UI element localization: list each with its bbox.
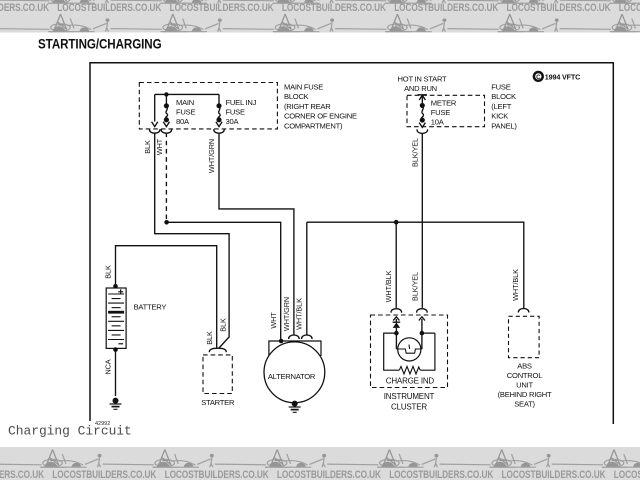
wire NCA battery to ground [115,350,117,396]
svg-text:(RIGHT REAR: (RIGHT REAR [284,102,331,111]
label ALTERNATOR [268,372,316,381]
node alternator WHT terminal [279,339,284,344]
label BLK/YEL vertical cluster [410,272,419,301]
diagram border frame [90,63,613,424]
svg-text:SEAT): SEAT) [514,400,535,409]
node cluster right junction [420,331,425,336]
label MAIN FUSE BLOCK location [284,83,357,131]
battery symbol [106,288,126,348]
svg-text:KICK: KICK [491,112,508,121]
wire WHT/BLK bus from alternator to ABS [307,222,524,335]
svg-text:(LEFT: (LEFT [491,102,511,111]
svg-text:LOCOSTBUILDERS.CO.UK: LOCOSTBUILDERS.CO.UK [502,469,606,480]
svg-text:BLK/YEL: BLK/YEL [410,138,419,167]
svg-text:ABS: ABS [517,362,532,371]
svg-text:FUSE: FUSE [491,83,510,92]
svg-text:MAIN FUSE: MAIN FUSE [284,83,323,92]
svg-text:LOCOSTBUILDERS.CO.UK: LOCOSTBUILDERS.CO.UK [57,2,161,14]
label BLK vertical starter right [218,318,227,332]
label BLK vertical [143,140,152,154]
svg-text:INSTRUMENT: INSTRUMENT [384,392,435,401]
svg-text:BLK: BLK [143,140,152,154]
svg-text:BLK: BLK [218,318,227,332]
main fuse block dashed box [139,83,277,129]
node cluster left junction [394,331,399,336]
svg-text:30A: 30A [226,117,240,126]
svg-text:LOCOSTBUILDERS.CO.UK: LOCOSTBUILDERS.CO.UK [52,469,156,480]
alternator connector cups [289,335,299,339]
svg-text:MAIN: MAIN [176,98,194,107]
svg-text:COMPARTMENT): COMPARTMENT) [284,121,343,130]
svg-text:AND RUN: AND RUN [404,84,437,93]
alternator housing box [269,341,321,356]
svg-text:CHARGE IND: CHARGE IND [386,377,435,386]
instrument cluster dashed box [371,315,448,388]
wire BLK/YEL from meter fuse to cluster [421,133,423,308]
svg-text:LOCOSTBUILDERS.CO.UK: LOCOSTBUILDERS.CO.UK [165,469,269,480]
alternator body circle [264,342,325,403]
label FUSE BLOCK location [491,83,517,131]
svg-text:PANEL): PANEL) [491,121,517,130]
ground alternator [292,401,297,406]
svg-text:80A: 80A [176,117,190,126]
label CHARGE IND [386,377,435,386]
svg-text:WHT: WHT [155,138,164,155]
loop wire around lamp [384,333,435,370]
svg-text:C: C [536,75,541,81]
label STARTER [201,398,235,407]
alternator wire labels [269,297,303,331]
svg-text:LOCOSTBUILDERS.CO.UK: LOCOSTBUILDERS.CO.UK [0,469,44,480]
svg-text:BLK: BLK [205,331,214,345]
svg-text:METER: METER [431,99,457,108]
watermark top band [0,0,640,33]
svg-text:BLK/YEL: BLK/YEL [410,272,419,301]
wire WHT dashed segment [165,133,167,220]
fuse MAIN FUSE 80A [161,94,171,133]
svg-text:FUSE: FUSE [431,108,450,117]
svg-text:CLUSTER: CLUSTER [391,403,427,412]
watermark bottom band [0,447,640,480]
lamp leads [396,333,422,349]
svg-text:WHT/GRN: WHT/GRN [282,297,291,331]
hot in start and run feed [398,75,448,94]
label ABS CONTROL UNIT [498,362,552,409]
svg-text:FUSE: FUSE [176,108,195,117]
ABS connector [518,309,528,313]
svg-text:LOCOSTBUILDERS.CO.UK: LOCOSTBUILDERS.CO.UK [0,2,49,14]
svg-text:STARTER: STARTER [201,398,235,407]
svg-text:BLOCK: BLOCK [284,92,309,101]
svg-text:LOCOSTBUILDERS.CO.UK: LOCOSTBUILDERS.CO.UK [277,469,381,480]
svg-text:FUEL INJ: FUEL INJ [226,98,257,107]
svg-text:WHT/BLK: WHT/BLK [511,269,520,301]
fuse METER FUSE 10A [417,95,427,133]
wire battery positive to starter [116,246,217,348]
lamp filament [396,345,422,354]
node battery negative terminal [113,347,118,352]
starter connector [209,348,226,352]
svg-text:WHT/GRN: WHT/GRN [207,139,216,173]
copyright 1994 VFTC logo [534,72,580,81]
label METER FUSE 10A [431,99,457,127]
svg-text:LOCOSTBUILDERS.CO.UK: LOCOSTBUILDERS.CO.UK [389,469,493,480]
label INSTRUMENT CLUSTER [384,392,435,412]
fuse FUEL INJ FUSE 30A [214,94,224,133]
wire WHT to alternator [167,222,281,339]
starter dashed box [203,355,232,394]
svg-text:ALTERNATOR: ALTERNATOR [268,372,316,381]
label WHT/BLK vertical ABS [511,269,520,301]
node WHT junction [164,220,169,225]
svg-text:HOT IN START: HOT IN START [398,75,448,84]
svg-text:Charging Circuit: Charging Circuit [8,423,132,438]
svg-text:BLOCK: BLOCK [491,92,516,101]
svg-text:WHT: WHT [269,312,278,329]
svg-text:LOCOSTBUILDERS.CO.UK: LOCOSTBUILDERS.CO.UK [507,2,611,14]
ground battery [113,398,118,403]
label BLK vertical starter left [205,331,214,345]
charge indicator lamp circle [398,338,421,361]
resistor R1 [399,366,420,374]
svg-text:NCA: NCA [103,359,112,374]
node bus junction [164,92,168,96]
ABS control unit dashed box [509,316,540,357]
svg-text:LOCOSTBUILDERS.CO.UK: LOCOSTBUILDERS.CO.UK [614,469,640,480]
node WHT/BLK junction [394,220,399,225]
svg-text:WHT/BLK: WHT/BLK [384,270,393,302]
fuse block dashed box [407,95,485,126]
wire BLK feed drop [154,94,156,121]
svg-text:CONTROL: CONTROL [507,371,542,380]
svg-text:FUSE: FUSE [226,108,245,117]
diode D1 [393,321,401,323]
wire WHT/BLK drop to cluster [395,222,397,308]
label MAIN FUSE 80A [176,98,195,126]
svg-text:LOCOSTBUILDERS.CO.UK: LOCOSTBUILDERS.CO.UK [619,2,640,14]
label FUEL INJ FUSE 30A [226,98,257,126]
label BATTERY [134,303,167,312]
svg-text:LOCOSTBUILDERS.CO.UK: LOCOSTBUILDERS.CO.UK [282,2,386,14]
wire WHT/GRN to alternator [219,133,294,336]
svg-text:BATTERY: BATTERY [134,303,167,312]
svg-text:BLK: BLK [103,265,112,279]
svg-text:LOCOSTBUILDERS.CO.UK: LOCOSTBUILDERS.CO.UK [394,2,498,14]
label WHT/BLK vertical cluster [384,270,393,302]
fuse box bus wire [155,93,219,95]
label BLK vertical battery [103,265,112,279]
svg-text:10A: 10A [431,118,445,127]
svg-text:LOCOSTBUILDERS.CO.UK: LOCOSTBUILDERS.CO.UK [170,2,274,14]
cluster connector left [391,309,401,313]
svg-text:CORNER OF ENGINE: CORNER OF ENGINE [284,112,357,121]
wire BLK from fuse box to starter [155,133,229,349]
svg-text:STARTING/CHARGING: STARTING/CHARGING [38,35,162,51]
label WHT/GRN vertical [207,139,216,173]
svg-text:1994 VFTC: 1994 VFTC [545,72,580,81]
svg-text:(BEHIND RIGHT: (BEHIND RIGHT [498,390,552,399]
node battery positive terminal [113,284,118,289]
cluster connector right [417,309,427,313]
meter fuse feed arrow [418,94,428,96]
svg-text:UNIT: UNIT [516,381,533,390]
label WHT vertical [155,138,164,155]
svg-text:WHT/BLK: WHT/BLK [295,298,304,330]
